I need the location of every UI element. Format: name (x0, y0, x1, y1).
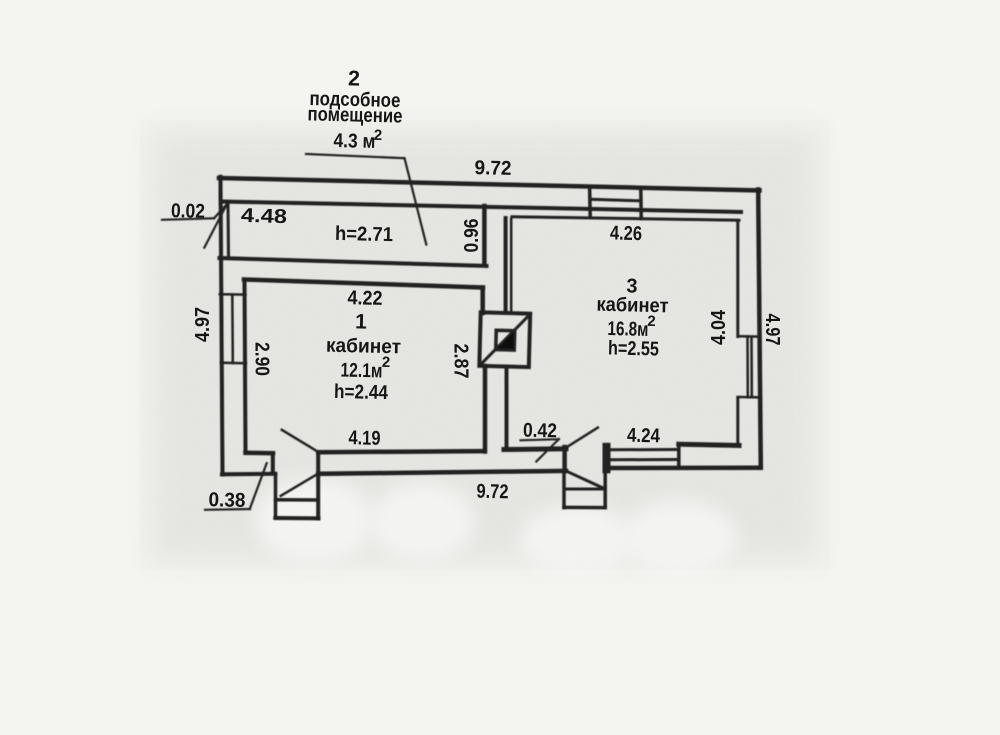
svg-text:12.1м: 12.1м (340, 360, 382, 383)
svg-text:2: 2 (348, 66, 361, 90)
svg-text:4.19: 4.19 (348, 427, 380, 450)
svg-text:4.97: 4.97 (761, 314, 783, 346)
svg-text:h=2.71: h=2.71 (335, 223, 393, 246)
svg-text:0.42: 0.42 (523, 420, 557, 443)
svg-text:4.48: 4.48 (241, 205, 288, 228)
svg-text:9.72: 9.72 (474, 157, 511, 180)
svg-text:1: 1 (355, 310, 368, 333)
svg-text:2: 2 (382, 354, 391, 371)
svg-text:4.3 м: 4.3 м (333, 130, 375, 153)
svg-text:h=2.44: h=2.44 (334, 381, 389, 404)
svg-text:2.87: 2.87 (450, 344, 472, 379)
svg-text:2: 2 (374, 127, 383, 144)
svg-text:h=2.55: h=2.55 (608, 337, 659, 360)
svg-text:4.26: 4.26 (610, 222, 642, 245)
svg-text:кабинет: кабинет (596, 294, 669, 318)
svg-text:0.38: 0.38 (208, 489, 245, 512)
svg-text:0.96: 0.96 (461, 219, 483, 253)
svg-text:помещение: помещение (307, 103, 402, 127)
svg-text:4.97: 4.97 (192, 307, 214, 342)
svg-text:0.02: 0.02 (171, 200, 205, 223)
svg-text:4.22: 4.22 (347, 287, 382, 310)
svg-text:4.24: 4.24 (627, 425, 661, 448)
svg-text:4.04: 4.04 (708, 309, 730, 345)
svg-text:9.72: 9.72 (476, 481, 508, 504)
svg-text:2: 2 (647, 313, 656, 330)
svg-text:2.90: 2.90 (251, 342, 273, 376)
